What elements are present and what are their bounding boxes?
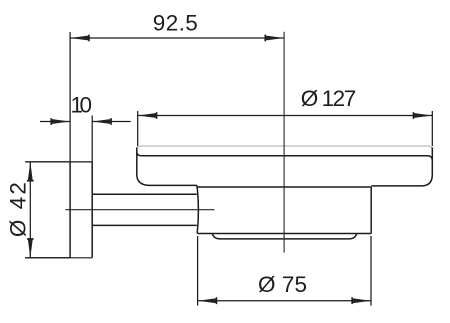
svg-text:Ø 75: Ø 75 [258, 272, 307, 297]
arm (horizontal support) [92, 194, 197, 225]
arrow 10 right (outside) [92, 119, 111, 124]
arrow back ticks [27, 35, 414, 305]
arrow Ø127 right [413, 113, 432, 118]
dimension 92.5 (wall to dish axis) [70, 32, 284, 162]
bowl holder (Ø75 cylinder, side view) [197, 185, 371, 239]
arrow Ø42 top [28, 162, 33, 181]
holder top line [197, 185, 371, 187]
dimension Ø75 (bowl diameter) [198, 236, 371, 306]
svg-text:Ø 127: Ø 127 [301, 86, 357, 111]
arrow Ø75 right [352, 298, 371, 303]
svg-text:Ø 42: Ø 42 [5, 182, 30, 237]
arrow Ø75 left [198, 298, 217, 303]
wall plate (Ø42 backplate, side view) [25, 162, 92, 258]
glass bowl bottom [212, 234, 356, 239]
arrow 10 left (outside) [51, 119, 70, 124]
dimension Ø127 (dish diameter) [138, 111, 433, 146]
svg-text:92.5: 92.5 [153, 10, 198, 35]
arrow 92.5 left [70, 36, 89, 41]
dimension 10 (plate thickness) [40, 116, 131, 162]
holder bottom edge [197, 233, 371, 235]
dish rim inner line [137, 153, 432, 160]
svg-text:10: 10 [71, 93, 93, 118]
holder right edge [370, 187, 372, 234]
dish left edge and bottom-left corner [137, 148, 197, 186]
dish vertical centerline [283, 32, 285, 253]
arrow Ø127 left [138, 113, 157, 118]
dish top surface (light line) [137, 146, 432, 150]
holder left edge [197, 187, 198, 234]
arrow 92.5 right [265, 36, 284, 41]
dimension Ø42 (plate diameter) [25, 162, 70, 258]
dish right edge and bottom-right corner [371, 148, 432, 186]
arrow Ø42 bottom [28, 239, 33, 258]
soap dish plate (Ø127, side view) [137, 146, 433, 186]
arm centerline [65, 209, 214, 211]
